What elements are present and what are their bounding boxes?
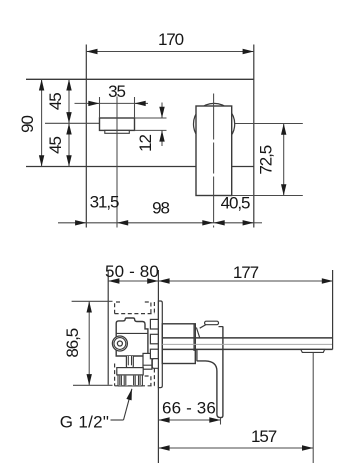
dimension 35 — [99, 97, 101, 118]
dimension 177 — [158, 280, 333, 282]
dimension 72,5 — [283, 124, 285, 196]
body outlet port lower — [150, 349, 158, 359]
spout base block — [162, 324, 195, 364]
dimension 86,5 extension bottom — [73, 384, 113, 386]
spout tip / 177 extension — [332, 270, 334, 349]
body outlet port top — [150, 319, 158, 329]
right lower step block — [143, 353, 152, 369]
handle centerline — [116, 97, 118, 228]
dimension 45 upper — [68, 79, 70, 123]
spout square escutcheon — [196, 106, 232, 196]
body seam line — [116, 332, 148, 334]
svg-text:31,5: 31,5 — [90, 193, 119, 212]
lever neck right line — [196, 350, 198, 362]
threaded G 1/2 connection — [118, 375, 142, 386]
dimension 90 — [41, 79, 43, 166]
svg-text:98: 98 — [152, 199, 169, 218]
svg-text:66 - 36: 66 - 36 — [162, 398, 216, 417]
svg-text:170: 170 — [158, 30, 184, 49]
aerator centerline / 157 extension — [312, 353, 314, 463]
dimension 40,5 — [214, 222, 254, 224]
dimension 98 — [117, 222, 214, 224]
lever top clip bump — [205, 321, 219, 325]
handle body (front) — [100, 118, 135, 130]
spout tube inner line — [162, 343, 332, 345]
dimension 45 lower — [68, 123, 70, 166]
svg-text:35: 35 — [108, 82, 125, 101]
svg-text:90: 90 — [18, 116, 37, 133]
mid-height extension line — [45, 122, 100, 124]
svg-text:G 1/2": G 1/2" — [60, 413, 109, 432]
dimension 66 - 36 — [220, 418, 222, 425]
dimension 86,5 — [88, 301, 90, 385]
body outlet port middle — [150, 334, 158, 344]
svg-text:45: 45 — [46, 93, 65, 110]
svg-text:45: 45 — [46, 137, 65, 154]
dimension 86,5 extension top — [72, 300, 113, 302]
lever ball joint diagonal 2 — [200, 325, 206, 329]
wall escutcheon plate (side) — [158, 301, 162, 388]
body port bottom rounded — [152, 359, 158, 369]
rough-in box dashed outline — [115, 302, 155, 386]
svg-text:177: 177 — [233, 263, 259, 282]
dimension 157 — [158, 447, 313, 449]
handle lip — [105, 130, 130, 133]
inlet stub — [117, 368, 143, 375]
lever handle — [197, 326, 223, 417]
in-wall box back line — [107, 271, 109, 385]
spout tube top — [162, 337, 332, 339]
aerator — [301, 349, 325, 352]
spout flange circle (behind square) — [194, 103, 235, 144]
dimension 50 - 80 — [108, 280, 158, 282]
cartridge adjustment circle — [112, 336, 127, 351]
wall surface line — [157, 270, 159, 463]
dimension 12 — [135, 117, 167, 119]
spout tube bottom — [162, 348, 332, 350]
svg-text:12: 12 — [136, 135, 155, 152]
wall plate outline — [26, 78, 254, 80]
dimension 31,5 — [58, 222, 86, 224]
svg-text:50 - 80: 50 - 80 — [105, 262, 159, 281]
bottom slot piece — [126, 356, 133, 369]
72,5 bottom extension — [232, 195, 303, 197]
dimension 170 — [86, 51, 254, 53]
svg-text:72,5: 72,5 — [257, 145, 276, 174]
spout centerline — [213, 94, 215, 228]
valve body — [116, 318, 148, 356]
lever top edge — [219, 326, 223, 328]
spout axis extension — [235, 123, 303, 125]
svg-text:86,5: 86,5 — [63, 328, 82, 357]
G 1/2 leader — [111, 419, 124, 421]
spout base inner right edge — [193, 324, 195, 351]
svg-text:157: 157 — [251, 427, 277, 446]
svg-text:40,5: 40,5 — [221, 194, 250, 213]
lever ball joint diagonal — [196, 328, 199, 338]
